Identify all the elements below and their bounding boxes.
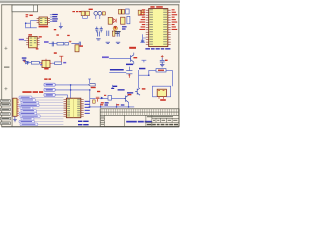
net label INT purple <box>44 41 49 43</box>
LED DS2 circle <box>98 11 102 15</box>
border frame left inner <box>11 4 14 127</box>
connector J1 body yellow strip <box>13 98 17 116</box>
wire INT row <box>49 43 57 45</box>
resistor R2 label red <box>54 29 56 30</box>
net text under arrow red <box>91 87 96 88</box>
designator U4 red <box>28 34 32 35</box>
resistor R1 label red top-left <box>26 14 29 17</box>
U1 left net labels red <box>139 9 145 30</box>
connector left edge label boxes <box>1 100 11 125</box>
title block revision grid ticks <box>102 109 179 116</box>
crystal Y2 near U1 <box>138 10 141 15</box>
port IN2 text <box>46 89 53 90</box>
port IN3 text <box>46 94 53 95</box>
title block row line 2 <box>100 114 179 116</box>
wire from IN2 <box>55 89 90 91</box>
capacitor bank C12 <box>98 31 120 37</box>
power label +5V red text <box>54 52 57 54</box>
U1 pins <box>146 10 171 44</box>
power tick +5V red small <box>69 41 72 42</box>
net labels right of U2 <box>52 14 58 22</box>
border frame right <box>178 4 181 127</box>
capacitor C16 yellow small <box>93 100 96 103</box>
wire zener to R6 <box>28 62 31 64</box>
diode D3 zener <box>26 61 28 64</box>
capacitor C1 <box>81 11 85 15</box>
wire row y98.5 <box>90 98 124 100</box>
resistor R8 <box>57 42 64 45</box>
resistor designators red above INT row <box>56 34 69 36</box>
net label WP blue <box>111 86 117 89</box>
node junction dot <box>25 22 27 24</box>
diode D1 label red <box>89 9 93 10</box>
designator P1 red <box>44 78 51 80</box>
op-amp U4 body mid-left <box>26 36 39 47</box>
U5 inner divider <box>73 98 75 118</box>
resistor R13 red dash <box>104 95 106 96</box>
net label top right cluster blue <box>126 64 133 66</box>
crystal Y1 labels red <box>72 11 81 12</box>
U5 pin text <box>67 99 80 116</box>
value label PCF8574 red <box>39 26 49 28</box>
capacitor C11 right <box>71 42 80 47</box>
value label MC red <box>129 47 136 49</box>
resistor R9 <box>65 42 69 45</box>
wire second row right <box>139 70 149 88</box>
capacitor C7 near U1 <box>141 10 144 15</box>
capacitor C8 left of U1 <box>141 40 144 41</box>
port IN3 <box>44 93 55 96</box>
op-amp U5 body bottom-center <box>66 98 80 118</box>
transistor Q1 <box>131 53 134 65</box>
resistor R3 vertical <box>127 16 130 23</box>
wire under LEDs <box>96 15 100 19</box>
text under LED <box>112 31 121 34</box>
title block right small text <box>147 116 177 121</box>
value label under Y3 red <box>160 99 166 101</box>
title block right dividers <box>146 115 179 126</box>
LED DS3 <box>113 26 117 30</box>
designator Q3 red <box>128 94 132 95</box>
net label row mid blue <box>110 69 124 71</box>
net label left of chain <box>40 64 42 65</box>
capacitor C6 top pair <box>122 9 125 14</box>
title block outline <box>100 109 179 127</box>
title block row line 1 <box>100 111 179 113</box>
power +5V symbol red <box>59 56 63 62</box>
resistor R6 horizontal <box>31 61 39 64</box>
node dot right <box>148 74 150 76</box>
resistor R7 horizontal <box>55 62 62 65</box>
wire loop sides to crystal <box>152 96 170 98</box>
U5 right net labels blue <box>85 101 90 114</box>
designator Q1 red <box>133 57 137 58</box>
wire WP stub <box>112 85 114 88</box>
wire stub left <box>31 21 37 24</box>
designator Q2 red <box>142 88 146 89</box>
section heading red NXP MASTER <box>22 91 43 93</box>
net text red below <box>101 102 104 103</box>
border frame left outer <box>0 4 3 127</box>
bus labels red <box>100 104 119 105</box>
wire vertical to U5 pin2 <box>70 85 72 98</box>
capacitor C13 yellow small <box>113 31 115 36</box>
window top bar <box>0 0 180 1</box>
wire vertical Q3 down <box>128 102 130 107</box>
net text row under U1 <box>145 48 170 49</box>
jumper block small <box>102 12 105 15</box>
border center mark dash <box>4 67 9 68</box>
ground bars under cap bank <box>96 39 120 44</box>
capacitor C5 top pair <box>119 9 122 14</box>
ground symbol <box>59 26 63 28</box>
bus labels blue <box>104 104 124 105</box>
wire bits above arrow <box>88 79 91 83</box>
wire K2 to R7 <box>52 62 55 64</box>
switch S1 yellow <box>75 45 79 52</box>
wire from IN3 <box>55 94 67 96</box>
wire to U4 <box>24 39 26 41</box>
ground under connector <box>13 116 17 122</box>
crystal Y3 body <box>157 89 166 99</box>
bus junction dots <box>89 106 129 108</box>
LED DS1 circle <box>94 11 98 15</box>
resistor R4 top <box>126 9 129 14</box>
wire from IN1 long <box>55 84 88 86</box>
relay K1 body <box>121 17 125 24</box>
U1 right net labels red <box>172 9 178 30</box>
net labels under U5 blue <box>78 121 89 126</box>
sheet background <box>0 0 180 130</box>
power tick red <box>23 61 25 62</box>
net marks below U4 <box>22 57 27 60</box>
bus stubs <box>101 104 117 107</box>
node junction dots <box>70 84 91 91</box>
title block filename text blue <box>126 121 152 123</box>
border plus mark upper <box>4 47 7 50</box>
port IN1 <box>44 83 55 86</box>
capacitor C15 red <box>96 97 100 101</box>
value label TWS red <box>44 68 48 70</box>
transistor Q3 <box>124 95 129 102</box>
wire R6 to K2 <box>39 62 42 64</box>
title block left column <box>100 115 104 126</box>
net label left of U4 <box>19 39 24 41</box>
U5 pins <box>64 100 84 117</box>
title block left column text <box>101 117 104 125</box>
connector J1 pins <box>17 99 19 115</box>
port arrow left <box>88 84 95 86</box>
net label RST purple <box>102 56 109 58</box>
capacitor C2 <box>86 11 90 15</box>
relay K2 body yellow <box>41 59 52 68</box>
capacitor C3 <box>95 27 98 33</box>
diode D4 red vertical <box>128 74 130 78</box>
resistor R5 label red <box>36 48 39 49</box>
resistor R12 vertical <box>108 96 112 101</box>
net label right of LED <box>122 26 127 29</box>
capacitor C4 <box>100 27 103 33</box>
wire under crystal <box>83 16 88 19</box>
title block bottom text row <box>147 124 178 126</box>
op-amp U2 PCF8574 body <box>37 17 50 25</box>
wire vertical right drop <box>89 90 91 107</box>
net text blue below <box>105 102 109 103</box>
diode D2 triangle red <box>113 19 116 23</box>
wire bits right <box>142 60 147 62</box>
op-amp U1 microcontroller body <box>149 9 168 47</box>
jumper JP1 <box>126 67 132 76</box>
diode D5 arrow blue <box>101 97 104 100</box>
wire RST row <box>109 57 130 59</box>
optocoupler U3 body <box>108 17 112 24</box>
net label red small mid <box>97 91 100 92</box>
wire stubs to net labels <box>50 15 61 26</box>
wire vertical to U5 pin <box>67 95 69 98</box>
designator S1 red <box>80 45 83 46</box>
border frame top <box>1 3 179 6</box>
U1 pin numbers inner text <box>150 9 168 44</box>
wire mid row <box>109 71 126 73</box>
title corner box top-left <box>12 5 38 12</box>
net label right of R7 <box>63 62 66 64</box>
U1 value label red <box>156 6 163 8</box>
bottom bus wire <box>88 106 134 108</box>
border plus mark lower <box>4 87 7 90</box>
wire cluster left of U1 <box>140 34 145 42</box>
wire net to U2 <box>26 23 37 28</box>
net label R10 blue <box>139 68 145 70</box>
resistor R11 horizontal right <box>149 69 173 87</box>
capacitor C14 electrolytic <box>160 55 168 67</box>
value label right of U4 red <box>39 36 42 37</box>
capacitor C10 <box>52 42 53 47</box>
port IN1 text <box>46 84 53 85</box>
port IN2 <box>44 88 55 91</box>
crystal loop wires <box>152 86 170 97</box>
transistor Q2 left-bottom <box>135 88 140 95</box>
title block middle divider <box>124 115 126 126</box>
port fan-out rows <box>19 96 63 126</box>
net labels above Q3 blue <box>118 89 134 93</box>
designator U2 red <box>29 15 32 16</box>
border frame bottom <box>1 126 179 127</box>
designator U1 red <box>150 6 154 8</box>
capacitor C9 small below U4 <box>26 62 29 65</box>
